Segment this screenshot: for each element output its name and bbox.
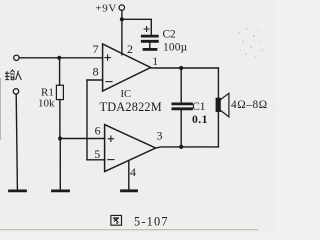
wire from +9V terminal down to supply node xyxy=(121,10,123,19)
wire link pin8 to pin5 xyxy=(86,80,88,160)
svg-text:+9V: +9V xyxy=(96,2,117,14)
speaker LS horn xyxy=(221,93,229,117)
wire pin 1 output to speaker rail xyxy=(151,67,219,69)
terminal input top xyxy=(14,55,19,60)
ground for C2 xyxy=(144,48,156,51)
wire junction down to R1 xyxy=(59,58,61,85)
svg-text:3: 3 xyxy=(157,129,163,143)
svg-text:10k: 10k xyxy=(38,98,55,110)
wire C1 bottom stem xyxy=(180,110,182,147)
wire pin 4 down from U1b xyxy=(128,161,130,190)
speaker LS body xyxy=(216,98,221,112)
op-amp U1a plus input mark xyxy=(105,55,110,60)
capacitor C1 plates xyxy=(173,103,192,106)
capacitor C2 plates xyxy=(142,35,157,38)
node R1 ground junction xyxy=(58,136,62,140)
wire C1 top stem xyxy=(180,68,182,103)
svg-text:6: 6 xyxy=(95,123,101,137)
svg-text:TDA2822M: TDA2822M xyxy=(100,100,162,114)
svg-text:4: 4 xyxy=(130,165,136,179)
wire speaker rail vertical xyxy=(217,68,219,147)
svg-text:5: 5 xyxy=(94,147,100,161)
node C1 bottom xyxy=(179,145,183,149)
wire node to pin 6 xyxy=(60,138,105,140)
wire C2 to ground xyxy=(149,43,151,48)
svg-text:4Ω–8Ω: 4Ω–8Ω xyxy=(231,99,268,111)
svg-text:5-107: 5-107 xyxy=(134,214,169,228)
svg-text:7: 7 xyxy=(93,42,99,56)
svg-text:C2: C2 xyxy=(163,28,177,40)
scan artifact left edge xyxy=(0,78,2,140)
terminal input bottom xyxy=(13,89,18,94)
op-amp U1b triangle xyxy=(105,125,156,172)
ground for pin 4 xyxy=(122,189,137,192)
op-amp U1b plus input mark xyxy=(108,136,113,141)
svg-text:100µ: 100µ xyxy=(163,41,188,53)
ground for R1 branch xyxy=(53,189,69,192)
op-amp U1b minus input mark xyxy=(108,159,114,161)
scan artifact bottom edge xyxy=(0,229,258,231)
svg-text:1: 1 xyxy=(152,56,158,68)
wire input bottom to ground xyxy=(16,94,17,189)
wire R1 to lower node xyxy=(59,100,61,139)
wire pin 8 from U1a to vertical link xyxy=(87,79,103,81)
caption figure glyph 图 xyxy=(111,215,122,225)
svg-text:2: 2 xyxy=(127,42,133,56)
wire node down to ground xyxy=(59,139,61,190)
wire pin 3 output to speaker rail xyxy=(156,147,219,148)
resistor R1 xyxy=(56,85,63,99)
op-amp U1a triangle xyxy=(103,44,151,91)
node C1 top xyxy=(179,66,183,70)
svg-text:0.1: 0.1 xyxy=(192,112,208,126)
wire input top to pin 7 xyxy=(19,57,103,59)
wire pin 5 into U1b xyxy=(87,159,105,161)
wire supply node to C2 top xyxy=(122,19,151,35)
node input junction xyxy=(57,56,61,60)
node supply junction xyxy=(120,17,124,21)
scan artifact speckles top right xyxy=(238,28,262,57)
terminal +9V xyxy=(119,5,124,10)
capacitor C2 polarity plus xyxy=(144,27,149,32)
op-amp U1a minus input mark xyxy=(106,81,112,83)
wire supply node down to pin 2 xyxy=(121,19,123,55)
label 输入 input (drawn glyphs) xyxy=(5,70,21,80)
svg-text:IC: IC xyxy=(121,89,132,100)
svg-text:8: 8 xyxy=(93,64,99,78)
ground for input bottom xyxy=(10,189,26,192)
